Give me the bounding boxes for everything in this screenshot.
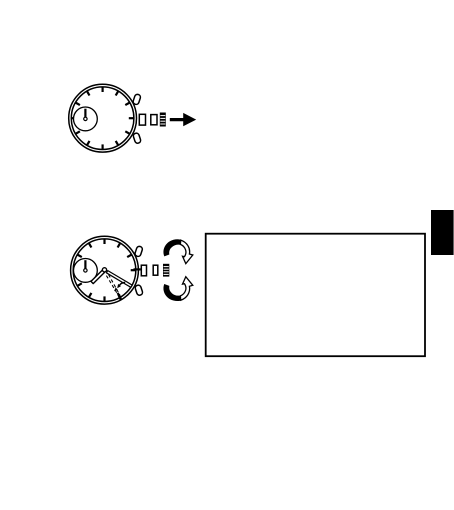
rotate arrow top: [164, 240, 193, 264]
watch 2 stem line: [134, 268, 141, 270]
watch 2 stem segment 1: [141, 265, 146, 276]
watch movement 1 dial: [69, 84, 142, 152]
watch 1 crown: [160, 113, 166, 127]
watch 2 minute hand: [106, 271, 132, 288]
watch 2 hour hand: [91, 270, 105, 284]
rotation direction small arrow: [117, 282, 125, 288]
watch 2 crown: [163, 264, 169, 277]
watch movement 2 dial: [71, 236, 144, 304]
watch 1 stem segment 2: [151, 115, 157, 125]
watch 2 stem segment 2: [153, 265, 158, 275]
instruction box: [206, 234, 425, 357]
watch 2 center pivot: [102, 268, 106, 272]
watch 2 small seconds subdial: [74, 259, 98, 283]
watch 1 small seconds subdial: [74, 107, 98, 131]
page tab: [431, 210, 454, 255]
watch 2 dashed hand: [106, 275, 120, 296]
watch 1 stem segment 1: [139, 114, 145, 125]
dashed hand tip: [119, 295, 122, 301]
rotate arrow bottom: [164, 277, 193, 301]
second small arrowhead: [114, 287, 118, 291]
pull-out arrow: [170, 113, 196, 126]
